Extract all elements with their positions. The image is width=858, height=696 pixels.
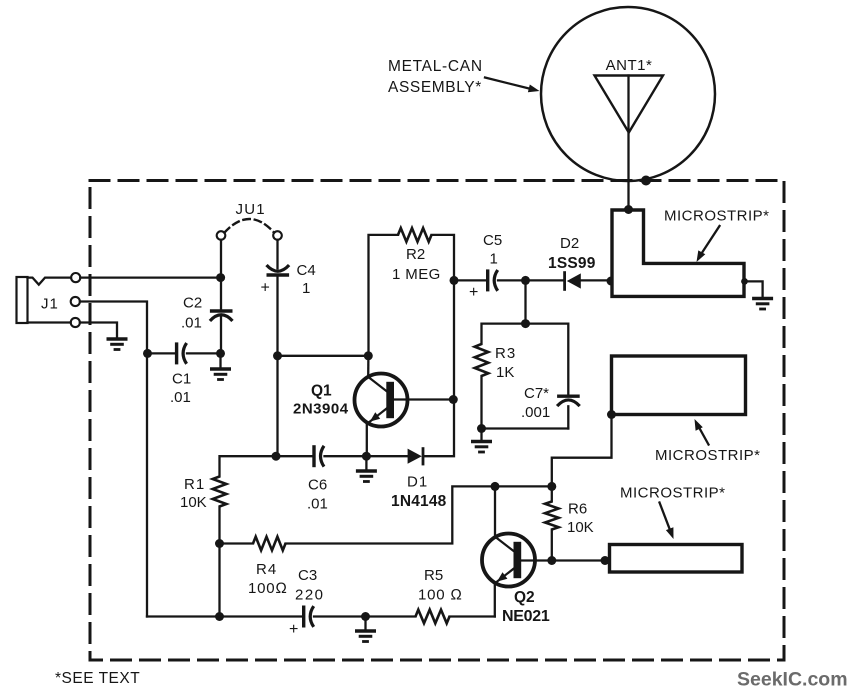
svg-text:METAL-CAN: METAL-CAN xyxy=(388,58,483,75)
junction dot C3/ground xyxy=(361,612,370,621)
junction dot R6 top xyxy=(547,482,556,491)
junction dot C1/C2/ground xyxy=(216,349,225,358)
junction dot Q2 collector on rail xyxy=(491,482,500,491)
connector J1 phone jack body xyxy=(17,277,72,323)
svg-text:D2: D2 xyxy=(560,235,579,252)
label C6 value xyxy=(307,477,328,513)
ground J1 xyxy=(107,339,128,350)
svg-text:+: + xyxy=(289,621,298,638)
svg-text:SeekIC.com: SeekIC.com xyxy=(737,669,848,691)
wire J1 sleeve to ground xyxy=(80,323,117,339)
wire to C1 left xyxy=(148,352,177,354)
wire R5 to Q2 emitter xyxy=(450,615,495,617)
wire D1 anode xyxy=(366,455,407,457)
jumper JU1 left pad xyxy=(217,231,226,240)
resistor R6 xyxy=(545,502,559,530)
wire R3/C7 top rail xyxy=(482,324,569,395)
svg-text:C3: C3 xyxy=(298,567,317,584)
jumper JU1 right pad xyxy=(273,231,282,240)
wire C3 right xyxy=(314,615,366,617)
resistor R4 xyxy=(253,537,286,551)
wire D2 cathode to microstrip1 xyxy=(581,279,611,281)
svg-text:100Ω: 100Ω xyxy=(248,580,288,597)
capacitor C4 (polarized) xyxy=(267,265,290,275)
capacitor C1 xyxy=(177,342,187,364)
label R4 value xyxy=(248,561,288,597)
label C2 value xyxy=(181,295,202,332)
svg-text:.001: .001 xyxy=(521,404,550,421)
wire microstrip1 right to ground xyxy=(745,281,763,297)
svg-text:ANT1*: ANT1* xyxy=(606,57,653,74)
wire R3 bottom xyxy=(480,376,482,429)
svg-text:C6: C6 xyxy=(308,477,327,494)
svg-text:JU1: JU1 xyxy=(236,201,266,218)
svg-text:220: 220 xyxy=(295,587,325,604)
wire bottom rail left xyxy=(147,615,303,617)
wire JU1 left pad to node A xyxy=(220,240,222,278)
wire node A to C2 xyxy=(220,278,222,310)
wire R2 left leg xyxy=(369,235,399,356)
label R6 value xyxy=(567,501,594,537)
label C7 value xyxy=(521,385,550,421)
junction dot R2/C5 xyxy=(450,276,459,285)
wire C5 left xyxy=(454,279,486,281)
microstrip element 3 xyxy=(610,545,743,573)
svg-text:C2: C2 xyxy=(183,295,202,312)
capacitor C6 xyxy=(314,445,324,467)
wire Q1 emitter down xyxy=(366,423,368,456)
resistor R1 xyxy=(213,477,227,507)
label D2 part xyxy=(548,235,596,272)
label Q1 part xyxy=(293,383,349,418)
diode D1 xyxy=(408,449,423,464)
wire Q1 base xyxy=(394,398,453,400)
svg-text:+: + xyxy=(261,280,270,297)
label C4 value xyxy=(297,262,316,297)
wire left rail down xyxy=(146,353,148,616)
junction dot R6 bottom xyxy=(547,556,556,565)
ground C3 xyxy=(355,617,376,642)
antenna ANT1 lead wire xyxy=(627,76,629,210)
svg-text:NE021: NE021 xyxy=(502,608,550,625)
svg-text:C4: C4 xyxy=(297,262,316,279)
wire rail up to microstrip2 xyxy=(552,415,612,487)
J1 sleeve terminal xyxy=(71,318,80,327)
junction dot Q1 collector column xyxy=(364,351,373,360)
wire C2 to ground node xyxy=(220,315,222,353)
svg-text:1K: 1K xyxy=(496,364,514,381)
label D1 part xyxy=(391,474,447,511)
svg-text:MICROSTRIP*: MICROSTRIP* xyxy=(620,485,726,502)
capacitor C7 xyxy=(557,396,580,406)
svg-text:R5: R5 xyxy=(424,567,443,584)
svg-text:R3: R3 xyxy=(495,345,516,362)
junction dot C1 left xyxy=(143,349,152,358)
junction dot microstrip1 right xyxy=(741,278,748,285)
transistor Q2 xyxy=(482,534,535,587)
ground microstrip1 xyxy=(752,299,773,310)
junction dot on R3/C7 top rail xyxy=(521,319,530,328)
resistor R3 xyxy=(475,344,489,376)
svg-text:R1: R1 xyxy=(184,476,205,493)
junction dot microstrip2 bottom-left xyxy=(607,410,616,419)
node A junction dot xyxy=(216,273,225,282)
J1 tip terminal xyxy=(71,273,80,282)
junction dot microstrip1 top xyxy=(624,205,633,214)
svg-text:R6: R6 xyxy=(568,501,587,518)
ground below C2 xyxy=(210,353,231,379)
wire R1 top / C6 rail left xyxy=(220,456,313,476)
transistor Q1 xyxy=(355,374,408,427)
junction dot C4 column on C6 rail xyxy=(272,452,281,461)
svg-text:ASSEMBLY*: ASSEMBLY* xyxy=(388,79,482,96)
junction dot C5/D2 xyxy=(521,276,530,285)
wire J1 tip to node A xyxy=(80,276,219,278)
wire R6 top xyxy=(551,486,553,501)
wire R4 to feedback rail xyxy=(286,486,552,543)
wire J1 ring right and down xyxy=(80,302,147,354)
svg-text:D1: D1 xyxy=(407,474,428,491)
svg-text:J1: J1 xyxy=(41,296,59,313)
wire base column mid xyxy=(453,280,455,399)
resistor R2 xyxy=(398,228,432,242)
ground Q1 emitter xyxy=(356,456,377,481)
svg-text:1 MEG: 1 MEG xyxy=(392,266,441,283)
wire dot to microstrip3 xyxy=(605,559,610,561)
svg-text:*SEE TEXT: *SEE TEXT xyxy=(55,670,140,687)
metal-can assembly circle xyxy=(541,7,715,181)
wire R4 left xyxy=(220,542,254,544)
svg-text:MICROSTRIP*: MICROSTRIP* xyxy=(655,447,761,464)
label R5 value xyxy=(418,567,463,604)
label R2 value xyxy=(392,246,441,283)
svg-text:.01: .01 xyxy=(170,389,191,406)
wire C4 to node B and down to C6 rail xyxy=(276,277,278,456)
capacitor C3 (polarized) xyxy=(304,606,314,628)
annotation arrow to microstrip1 xyxy=(697,226,720,262)
junction dot microstrip3 left xyxy=(601,556,610,565)
wire C5 right xyxy=(498,279,524,281)
svg-text:Q1: Q1 xyxy=(311,383,332,400)
wire R2 right leg down xyxy=(432,235,455,281)
svg-text:.01: .01 xyxy=(181,315,202,332)
junction dot Q1 base xyxy=(449,395,458,404)
dashed enclosure border xyxy=(90,181,784,661)
annotation arrow to microstrip3 xyxy=(660,503,674,540)
label C1 value xyxy=(170,371,191,407)
jumper JU1 dashed link xyxy=(225,219,275,233)
svg-text:1: 1 xyxy=(302,280,310,297)
J1 ring terminal xyxy=(71,297,80,306)
junction dot R1/R4 xyxy=(215,539,224,548)
wire Q2 base to microstrip3 xyxy=(521,559,604,561)
svg-text:1SS99: 1SS99 xyxy=(548,255,596,272)
wire Q2 emitter down xyxy=(494,583,496,617)
wire to R5 xyxy=(366,615,416,617)
label C3 value xyxy=(295,567,325,604)
svg-text:Q2: Q2 xyxy=(514,589,535,606)
wire C1 right to node xyxy=(187,352,219,354)
junction dot R3/C7 ground xyxy=(477,424,486,433)
svg-text:R2: R2 xyxy=(406,246,425,263)
svg-text:10K: 10K xyxy=(567,519,594,536)
wire D2 anode side xyxy=(526,279,564,281)
resistor R5 xyxy=(416,610,450,624)
junction dot bottom rail / R1 column xyxy=(215,612,224,621)
junction dot at circle/border xyxy=(641,176,651,186)
ground R3/C7 xyxy=(471,429,492,453)
label R1 value xyxy=(180,476,207,511)
label C5 value xyxy=(483,232,502,268)
wire R1 bottom xyxy=(218,507,220,544)
wire base column to D1 cathode xyxy=(424,400,455,457)
svg-text:R4: R4 xyxy=(256,561,277,578)
svg-text:1: 1 xyxy=(490,251,498,268)
svg-text:2N3904: 2N3904 xyxy=(293,401,349,418)
svg-text:10K: 10K xyxy=(180,494,207,511)
microstrip element 2 xyxy=(612,356,746,415)
wire node B to Q1 collector column xyxy=(278,355,369,357)
svg-text:C5: C5 xyxy=(483,232,502,249)
wire R1 column to bottom rail xyxy=(218,544,220,617)
diode D2 xyxy=(565,273,581,290)
wire junction down to R3/C7 rail xyxy=(524,280,526,323)
wire Q2 collector up to rail xyxy=(494,486,496,537)
capacitor C2 xyxy=(210,311,233,321)
svg-text:MICROSTRIP*: MICROSTRIP* xyxy=(664,208,770,225)
annotation arrow to metal-can assembly xyxy=(485,78,540,93)
wire JU1 right pad to C4 xyxy=(276,240,278,268)
annotation arrow to microstrip2 xyxy=(695,419,709,445)
junction dot Q1 emitter xyxy=(362,452,371,461)
node B junction dot xyxy=(273,351,282,360)
svg-text:.01: .01 xyxy=(307,496,328,513)
label METAL-CAN ASSEMBLY* xyxy=(388,58,483,96)
svg-text:C7*: C7* xyxy=(524,385,549,402)
svg-text:1N4148: 1N4148 xyxy=(391,493,447,510)
wire R3/C7 bottom rail xyxy=(482,427,569,429)
label Q2 part xyxy=(502,589,550,625)
wire C7 bottom xyxy=(567,406,569,428)
svg-text:+: + xyxy=(469,284,478,301)
wire R6 bottom xyxy=(551,530,553,561)
junction dot microstrip1 left xyxy=(607,277,616,286)
wire collector junction to Q1 xyxy=(367,356,369,377)
label R3 value xyxy=(495,345,516,381)
antenna ANT1 symbol xyxy=(595,76,664,133)
microstrip element 1 (L-shaped) xyxy=(612,210,744,296)
svg-text:C1: C1 xyxy=(172,371,191,388)
svg-text:100 Ω: 100 Ω xyxy=(418,587,463,604)
capacitor C5 (polarized) xyxy=(488,269,498,291)
wire C6 right xyxy=(325,455,367,457)
